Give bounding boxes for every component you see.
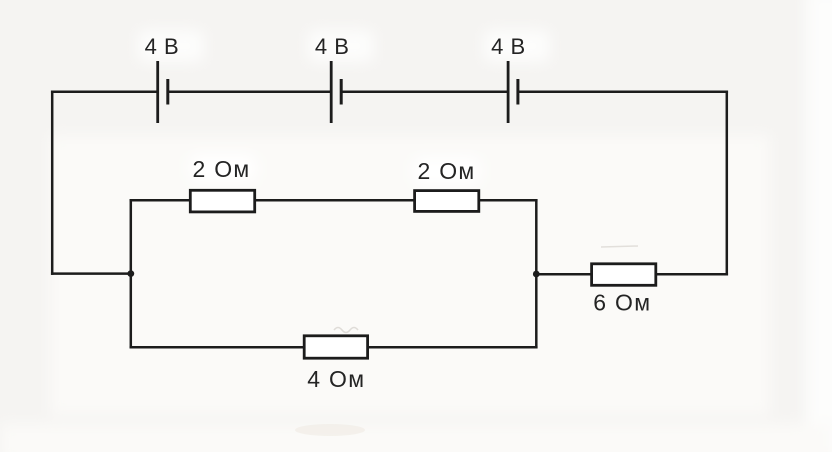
faint scan smudge above resistor R3 bbox=[334, 328, 358, 333]
resistor R4 body bbox=[592, 264, 656, 286]
svg-text:4 В: 4 В bbox=[491, 34, 526, 59]
resistor R1 body bbox=[190, 190, 254, 212]
wire from resistor R2 to right branch vertical bbox=[479, 199, 537, 202]
svg-text:4 Ом: 4 Ом bbox=[307, 366, 365, 392]
wire bottom branch from resistor R3 to right vertical bbox=[368, 346, 537, 349]
faint scan smudge bottom middle bbox=[295, 424, 365, 436]
svg-text:2 Ом: 2 Ом bbox=[192, 156, 250, 182]
svg-text:6 Ом: 6 Ом bbox=[593, 290, 651, 316]
svg-text:4 В: 4 В bbox=[315, 34, 350, 59]
battery GB2 long plate (+) bbox=[330, 61, 333, 123]
wire bottom branch from left vertical to resistor R3 bbox=[131, 346, 304, 349]
resistor R3 body bbox=[304, 336, 367, 358]
faint scan smudge above resistor R4 bbox=[601, 246, 638, 247]
battery GB1 long plate (+) bbox=[156, 61, 159, 123]
wire from node B to resistor R4 bbox=[536, 273, 591, 276]
battery GB3 short plate (-) bbox=[516, 79, 519, 105]
resistor R2 body bbox=[415, 191, 479, 212]
wire left branch vertical (middle branch top to bottom branch) through node A bbox=[130, 200, 133, 347]
battery GB3 long plate (+) bbox=[507, 61, 510, 123]
node A junction dot bbox=[127, 270, 134, 277]
wire top-left segment from left rail to battery GB1 bbox=[52, 90, 156, 93]
battery GB2 short plate (-) bbox=[340, 79, 343, 105]
node B junction dot bbox=[533, 271, 540, 278]
battery GB1 short plate (-) bbox=[166, 79, 169, 105]
wire from resistor R4 to right rail bbox=[656, 273, 727, 276]
wire middle branch from left vertical to resistor R1 bbox=[131, 199, 191, 202]
wire from battery GB3 to top-right corner bbox=[519, 90, 727, 93]
wire bottom-left horizontal into node A bbox=[52, 272, 131, 275]
wire right branch vertical (middle branch to bottom branch) through node B bbox=[535, 200, 538, 347]
wire between resistor R1 and resistor R2 bbox=[255, 199, 415, 202]
wire between battery GB2 and battery GB3 bbox=[342, 90, 507, 93]
wire left rail (top-left corner down to bottom-left node) bbox=[51, 92, 54, 274]
svg-text:2 Ом: 2 Ом bbox=[417, 158, 475, 184]
wire between battery GB1 and battery GB2 bbox=[169, 90, 330, 93]
svg-text:4 В: 4 В bbox=[145, 34, 180, 59]
wire right rail (top-right corner down to 6 Om branch) bbox=[726, 92, 729, 275]
